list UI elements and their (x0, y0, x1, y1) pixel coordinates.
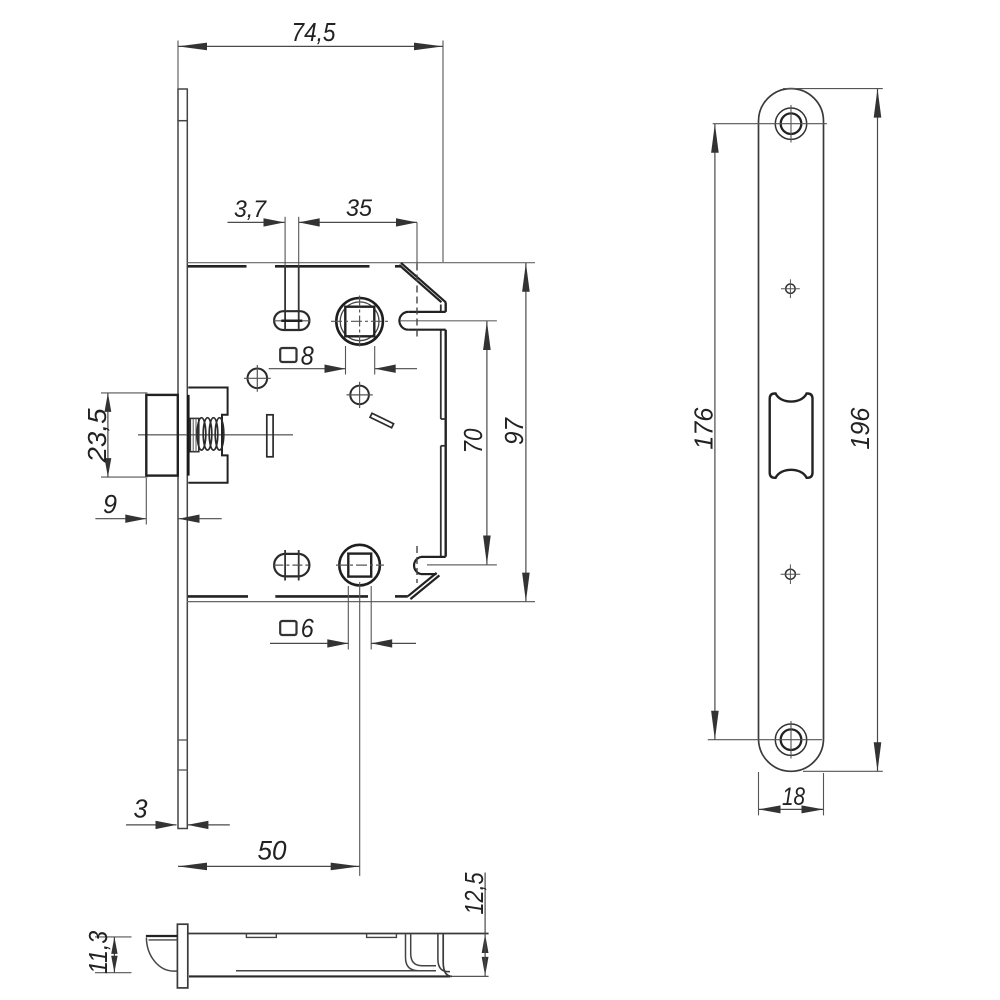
screw hole left (244, 365, 271, 392)
svg-text:3: 3 (134, 794, 149, 824)
stop pin (angled) (370, 413, 394, 428)
dimension 12,5 (459, 872, 489, 976)
svg-text:23,5: 23,5 (82, 408, 112, 464)
bottom view: notch left (246, 934, 276, 938)
svg-text:176: 176 (689, 407, 719, 450)
svg-text:12,5: 12,5 (459, 872, 489, 914)
dimension square 6 (270, 586, 416, 650)
latch cutout (770, 394, 813, 478)
bottom view: case bottom edge (189, 971, 489, 977)
svg-text:8: 8 (301, 341, 314, 371)
dimension square 8 (269, 341, 417, 375)
small hole upper (781, 279, 800, 298)
bottom spindle hole (6mm square) (336, 545, 384, 586)
lock case bottom edge (187, 596, 536, 601)
svg-text:18: 18 (782, 783, 805, 811)
dimension 176 (689, 124, 719, 740)
dimension 23,5 (82, 393, 148, 477)
dimension 196 (783, 89, 883, 772)
latch centre line (138, 434, 293, 436)
svg-text:9: 9 (103, 489, 117, 519)
faceplate front view (177, 89, 188, 829)
lock case top-right chamfer (399, 263, 446, 303)
top screw hole (713, 105, 827, 143)
striker faceplate outline (759, 89, 824, 772)
svg-text:35: 35 (346, 195, 373, 222)
latch guide box (188, 388, 227, 483)
spring (197, 418, 224, 450)
dimension 18 (759, 772, 824, 815)
hidden dashed line at slot depth (416, 222, 418, 583)
lock case bottom-right break (408, 573, 440, 599)
screw hole center (347, 382, 373, 408)
svg-text:196: 196 (845, 407, 875, 450)
svg-text:3,7: 3,7 (234, 196, 268, 223)
lower oval boss with slot (273, 550, 310, 581)
latch bolt head (146, 395, 188, 476)
svg-text:97: 97 (499, 417, 529, 445)
svg-text:6: 6 (301, 613, 314, 643)
spindle-level slot in right edge (399, 312, 497, 330)
bottom view: faceplate cross-section (177, 924, 187, 988)
lower slot in right edge (414, 557, 497, 574)
follower bar (267, 415, 273, 457)
dimension 50 (178, 582, 360, 876)
bottom view: case top edge (188, 933, 489, 935)
small hole lower (781, 564, 801, 584)
dimension 9 (95, 478, 221, 525)
bottom screw hole (708, 721, 822, 759)
lock case right edge (441, 302, 446, 556)
bottom view: latch bolt with bevel (146, 936, 178, 971)
dimension 35 (299, 195, 417, 227)
upper oval boss with 3.7mm slot (273, 266, 310, 330)
lock case top edge (187, 263, 536, 267)
dimension 3 (126, 794, 230, 830)
svg-text:11,3: 11,3 (83, 930, 113, 973)
dimension 11,3 (83, 930, 132, 973)
svg-text:74,5: 74,5 (292, 17, 336, 47)
bottom view: inner right wall (406, 934, 437, 971)
bottom view: notch right (367, 934, 397, 938)
svg-text:50: 50 (258, 836, 287, 866)
dimension 70 (458, 321, 491, 565)
top spindle hole (8mm square) (331, 296, 389, 348)
spring seat (190, 418, 199, 451)
bottom view: outer right wall (438, 934, 452, 977)
dimension 3,7 (228, 196, 299, 266)
svg-text:70: 70 (458, 428, 488, 453)
dimension 97 (499, 263, 530, 602)
dimension 74,5 (178, 17, 443, 262)
